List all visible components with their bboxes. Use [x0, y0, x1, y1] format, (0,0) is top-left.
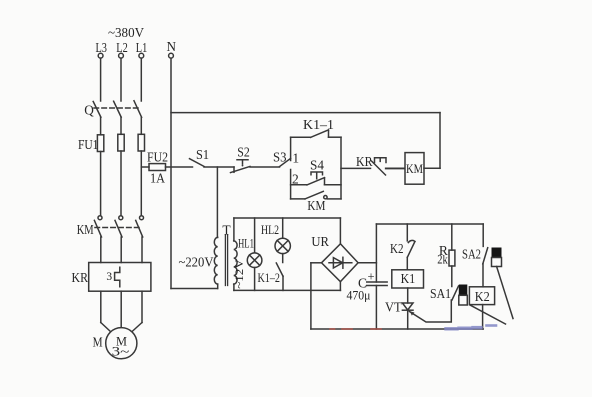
wire KM to KR box (3 phases): [101, 237, 142, 263]
svg-text:S1: S1: [196, 147, 209, 162]
node L2: [116, 40, 128, 58]
lamp HL1: [238, 218, 262, 290]
wire right edge of selector block: [340, 137, 342, 199]
svg-text:Q: Q: [84, 103, 94, 118]
wire L3 drop to Q: [100, 58, 102, 101]
wire UR left (DC-): [311, 263, 322, 329]
coil KM: [405, 153, 424, 185]
wire N drop: [170, 58, 172, 288]
capacitor C 470u: [347, 269, 388, 302]
svg-text:K2: K2: [390, 241, 404, 256]
wire S1 to S2: [204, 166, 234, 168]
contact KR (thermal, NC): [356, 154, 386, 175]
wire bottom rail: [311, 328, 483, 330]
wire tap to transformer primary: [216, 167, 218, 237]
switch Q: [84, 101, 141, 118]
contact K2 (NO): [390, 224, 415, 270]
fuse FU1 (3x): [78, 134, 145, 152]
svg-text:KM: KM: [406, 162, 423, 176]
svg-text:3: 3: [106, 271, 112, 283]
svg-text:3~: 3~: [112, 344, 130, 359]
contact K1-1: [291, 117, 341, 138]
svg-text:K2: K2: [475, 289, 490, 304]
svg-text:HL2: HL2: [261, 223, 279, 237]
svg-text:L2: L2: [116, 40, 128, 55]
watermark red tint on rail: [330, 328, 381, 330]
wire selector to KR contact: [341, 167, 371, 169]
contactor KM main contacts: [77, 216, 144, 238]
wire DC+ column: [375, 224, 377, 329]
wire KM coil to right column: [424, 167, 440, 169]
wire N horizontal top rail to right column: [171, 112, 440, 114]
transformer T core: [222, 223, 231, 286]
svg-text:FU1: FU1: [78, 137, 99, 152]
svg-text:FU2: FU2: [147, 150, 168, 165]
svg-text:1A: 1A: [150, 171, 165, 186]
coil K1: [392, 270, 424, 288]
sensor switch SA1: [430, 285, 467, 306]
svg-text:KM: KM: [77, 222, 94, 237]
thermal relay KR box: [72, 263, 151, 292]
coil K2: [469, 287, 494, 305]
svg-text:~380V: ~380V: [108, 25, 144, 40]
wire lamp top rail: [234, 217, 341, 219]
wire right column drop: [439, 113, 441, 169]
wire UR bottom to lamp rail: [339, 282, 341, 291]
svg-text:KM: KM: [307, 198, 325, 213]
rod of SA2 float: [497, 267, 513, 319]
pushbutton S2: [231, 145, 251, 173]
wire L2 drop to Q: [120, 58, 122, 101]
rectifier UR bridge: [311, 234, 358, 282]
wire KR box to motor (3 leads): [101, 291, 142, 332]
svg-text:K1–2: K1–2: [257, 271, 280, 285]
svg-text:KR: KR: [356, 154, 373, 169]
svg-text:T: T: [222, 223, 231, 238]
svg-text:S2: S2: [237, 145, 250, 160]
transformer T primary ~220V: [179, 237, 218, 288]
svg-text:SA1: SA1: [430, 286, 451, 301]
contact K1-2: [257, 263, 283, 290]
svg-text:M: M: [93, 334, 103, 349]
sensor switch SA2: [462, 246, 502, 287]
svg-text:KR: KR: [72, 270, 89, 285]
pushbutton S4: [291, 157, 341, 185]
lamp HL2: [261, 218, 290, 263]
svg-text:+: +: [367, 269, 374, 283]
node L3: [95, 40, 107, 58]
wire S2 to S3: [250, 166, 280, 168]
contact KM auxiliary: [291, 191, 341, 213]
svg-text:~220V: ~220V: [179, 255, 214, 270]
wire Q to FU1 (3 phases): [101, 117, 142, 135]
node L1: [136, 40, 148, 58]
svg-text:470μ: 470μ: [347, 288, 371, 302]
thyristor VT: [385, 299, 451, 329]
svg-text:HL1: HL1: [238, 237, 254, 251]
svg-text:UR: UR: [311, 234, 329, 249]
wire FU1 to KM contacts (3 phases): [101, 151, 142, 216]
svg-text:SA2: SA2: [462, 246, 481, 261]
svg-text:VT: VT: [385, 299, 402, 314]
wire FU2 to S1: [166, 166, 193, 168]
wire lamp bottom rail: [234, 289, 341, 291]
svg-text:S4: S4: [310, 157, 324, 172]
switch S1: [190, 147, 210, 166]
node 1 stub: [291, 137, 299, 165]
switch S3: [273, 150, 291, 167]
fuse FU2 1A: [141, 150, 168, 186]
transformer T secondary ~12V: [232, 218, 246, 290]
wire N to primary bottom: [171, 288, 218, 290]
wire UR right (DC+): [358, 262, 376, 264]
resistor R 2k: [437, 224, 455, 287]
svg-text:N: N: [166, 39, 176, 54]
motor M: [93, 328, 137, 359]
svg-text:K1: K1: [401, 271, 416, 286]
wire K2 coil to bottom rail: [482, 305, 484, 329]
node 2 stub: [291, 170, 299, 199]
wire KR to KM coil: [386, 167, 405, 169]
wire relay top rail: [376, 224, 483, 246]
wire UR top to rail: [339, 218, 341, 244]
svg-text:1: 1: [292, 151, 299, 166]
svg-text:L1: L1: [136, 40, 148, 55]
watermark blue dashes: [446, 326, 496, 329]
wire L1 drop to Q: [140, 58, 142, 101]
node N: [166, 39, 176, 58]
svg-text:K1–1: K1–1: [303, 117, 334, 132]
wire K1 to VT: [407, 288, 409, 303]
svg-text:L3: L3: [95, 40, 107, 55]
svg-text:2k: 2k: [437, 253, 448, 267]
rod of K2 float: [470, 305, 506, 324]
svg-text:~12V: ~12V: [232, 259, 246, 289]
